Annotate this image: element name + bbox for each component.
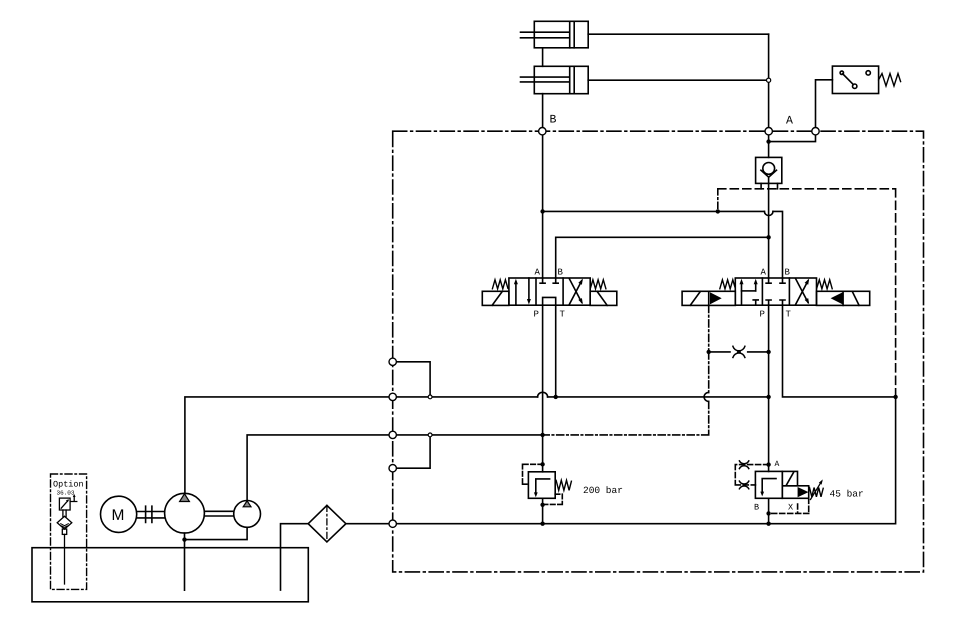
- svg-text:M: M: [112, 507, 125, 524]
- svg-text:B: B: [550, 114, 557, 127]
- svg-text:Option: Option: [53, 480, 84, 490]
- svg-text:A: A: [535, 268, 541, 278]
- svg-text:45 bar: 45 bar: [830, 489, 864, 500]
- svg-text:A: A: [761, 268, 767, 278]
- svg-text:A: A: [775, 460, 780, 469]
- svg-text:T: T: [560, 310, 566, 320]
- svg-text:X: X: [788, 503, 793, 513]
- svg-text:A: A: [786, 115, 793, 128]
- svg-text:200 bar: 200 bar: [583, 485, 623, 496]
- svg-text:36.03: 36.03: [57, 490, 75, 497]
- svg-text:B: B: [754, 503, 759, 513]
- svg-text:B: B: [558, 268, 564, 278]
- svg-text:T: T: [786, 310, 792, 320]
- svg-text:P: P: [534, 310, 539, 320]
- svg-text:P: P: [760, 310, 765, 320]
- svg-text:B: B: [785, 268, 791, 278]
